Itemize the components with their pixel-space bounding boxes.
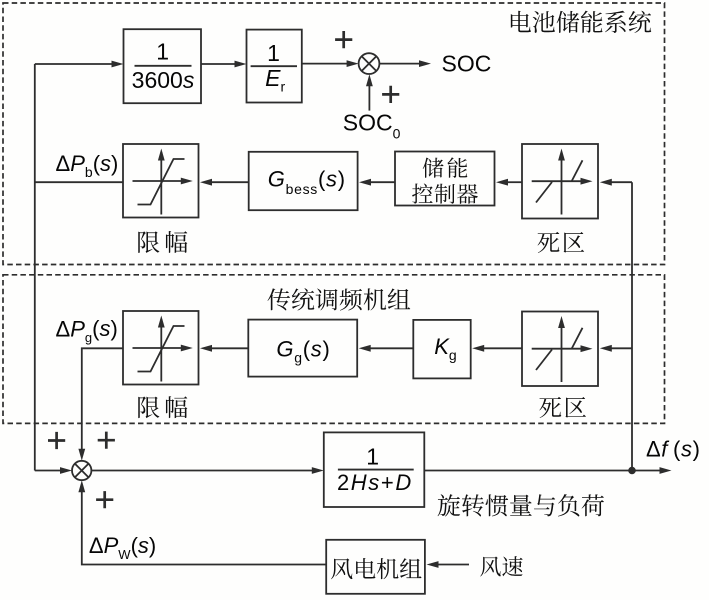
wire: Gbess to limiter1 xyxy=(210,181,249,183)
label: rotational inertia and load xyxy=(438,494,604,516)
svg-text:1: 1 xyxy=(156,39,169,65)
wire: wind speed into wind block xyxy=(437,564,469,566)
wire: left feed vertical xyxy=(34,64,36,471)
label: limiter 2 xyxy=(138,396,187,418)
block wind turbine unit xyxy=(326,540,425,594)
wire: SOC summer output xyxy=(379,63,420,65)
summing junction SOC xyxy=(359,53,380,74)
dead-zone block 1 xyxy=(522,144,598,219)
block Gg(s) xyxy=(248,320,357,377)
label: limiter 1 xyxy=(138,231,187,253)
block 1/3600s xyxy=(124,29,202,103)
label: wind speed xyxy=(480,556,522,576)
label: controller (line 2) xyxy=(412,184,478,204)
plus sign at SOC summer input xyxy=(335,31,352,48)
wire: Kg to Gg xyxy=(369,347,413,349)
wire: SOC0 up into summer xyxy=(368,85,370,111)
dashed box: conventional frequency-regulation unit xyxy=(3,275,665,424)
plus sign wind input bottom summer xyxy=(96,491,113,508)
plus sign at SOC0 input xyxy=(382,86,399,103)
block 1/Er xyxy=(247,30,302,103)
wire: into 1/3600s xyxy=(35,63,112,65)
svg-text:2Hs+D: 2Hs+D xyxy=(337,470,413,495)
block energy-storage controller xyxy=(395,152,495,206)
summing junction frequency xyxy=(72,461,91,480)
wire: deadzone1 to controller xyxy=(506,181,522,183)
block 1/(2Hs+D) xyxy=(324,432,425,507)
limiter block 2 xyxy=(123,311,199,385)
svg-text:Δf (s): Δf (s) xyxy=(646,436,701,461)
label: dead zone 1 xyxy=(538,232,585,253)
plus sign top input bottom summer xyxy=(98,432,115,449)
label: dead zone 2 xyxy=(539,397,586,418)
junction dot xyxy=(629,468,635,474)
wire: deadzone2 to Kg xyxy=(482,347,522,349)
block Gbess(s) xyxy=(249,152,358,210)
svg-text:3600s: 3600s xyxy=(132,67,195,93)
wire: left line into bottom summer xyxy=(35,470,62,472)
wire: 1/Er to SOC summer xyxy=(302,63,347,65)
wire: summer to 1/(2Hs+D) xyxy=(91,470,313,472)
wire: feedback vertical xyxy=(631,182,633,470)
wire: controller to Gbess xyxy=(369,181,395,183)
wire: limiter2 output, down to summer xyxy=(82,348,123,450)
wire: wind power into summer from below xyxy=(82,491,326,565)
label: battery energy storage system xyxy=(511,11,651,33)
limiter block 1 xyxy=(123,144,199,218)
wire: limiter1 output to left line xyxy=(35,181,123,183)
wire: 1/3600s to 1/Er xyxy=(201,63,235,65)
wire: feedback to deadzone2 xyxy=(610,347,632,349)
svg-text:1: 1 xyxy=(366,444,379,470)
wire: output Delta f xyxy=(424,470,660,472)
dead-zone block 2 xyxy=(522,312,598,387)
svg-text:SOC: SOC xyxy=(442,51,492,77)
label: wind turbine unit xyxy=(331,558,422,579)
svg-text:Gg(s): Gg(s) xyxy=(276,336,330,365)
svg-text:1: 1 xyxy=(267,40,280,66)
label: energy storage (controller line 1) xyxy=(423,157,468,177)
plus sign left input bottom summer xyxy=(48,432,65,449)
wire: feedback to deadzone1 xyxy=(610,181,632,183)
wire: Gg to limiter2 xyxy=(210,347,248,349)
block Kg xyxy=(413,320,470,379)
dashed box: battery energy storage system xyxy=(3,3,665,265)
label: conventional frequency regulation unit xyxy=(268,288,411,310)
